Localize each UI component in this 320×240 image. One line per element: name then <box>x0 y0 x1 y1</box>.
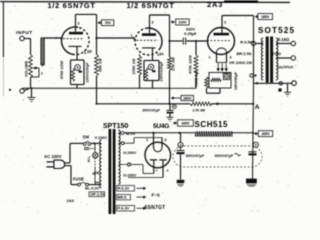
svg-text:G:290V: G:290V <box>123 174 137 178</box>
svg-text:5U4G: 5U4G <box>153 123 169 130</box>
svg-text:SCH515: SCH515 <box>195 120 229 129</box>
svg-text:SW: SW <box>83 135 90 140</box>
svg-text:1/2 6SN7GT: 1/2 6SN7GT <box>48 1 96 10</box>
svg-text:INPUT: INPUT <box>16 30 33 36</box>
svg-text:H.L: H.L <box>87 155 91 162</box>
svg-text:47K: 47K <box>92 170 100 176</box>
svg-text:45K 1W: 45K 1W <box>99 58 103 72</box>
svg-text:VR 100Ω 2W: VR 100Ω 2W <box>229 60 252 65</box>
svg-text:8: 8 <box>165 138 167 142</box>
svg-text:T/8Ω: T/8Ω <box>272 51 282 56</box>
svg-text:0.16Ω: 0.16Ω <box>278 37 290 42</box>
svg-text:285V: 285V <box>261 15 270 19</box>
svg-text:R:6.3V: R:6.3V <box>118 187 130 191</box>
svg-text:SPT150: SPT150 <box>103 123 128 130</box>
svg-text:2.7K 3W: 2.7K 3W <box>193 109 206 113</box>
svg-text:2A3: 2A3 <box>67 198 75 203</box>
svg-text:1: 1 <box>131 34 133 38</box>
svg-text:210V: 210V <box>178 20 187 24</box>
svg-text:V:100V: V:100V <box>95 136 108 140</box>
svg-text:4: 4 <box>230 56 232 60</box>
svg-text:265V: 265V <box>181 121 190 125</box>
svg-text:SOT525: SOT525 <box>258 26 295 35</box>
svg-text:2: 2 <box>41 72 43 76</box>
svg-text:NR: NR <box>95 181 99 185</box>
svg-text:2: 2 <box>146 138 148 142</box>
svg-text:BL:6.3V: BL:6.3V <box>85 186 100 190</box>
svg-text:R:3.5K: R:3.5K <box>240 39 253 44</box>
svg-text:100V/100µF: 100V/100µF <box>160 61 164 82</box>
svg-text:1/2 6SN7GT: 1/2 6SN7GT <box>127 1 175 10</box>
svg-text:300V/47µF: 300V/47µF <box>186 154 205 158</box>
svg-text:100V/100µF: 100V/100µF <box>86 62 90 83</box>
svg-text:2A3: 2A3 <box>207 0 223 9</box>
svg-text:150V/50µF: 150V/50µF <box>234 71 238 90</box>
svg-text:260V: 260V <box>183 96 192 100</box>
svg-text:0.25µF: 0.25µF <box>184 31 197 36</box>
svg-text:300V/47µF: 300V/47µF <box>215 154 234 158</box>
svg-text:76V: 76V <box>105 21 112 25</box>
svg-text:W:5V: W:5V <box>126 132 136 136</box>
svg-text:BR:0: BR:0 <box>118 196 127 200</box>
svg-text:OUTPUT: OUTPUT <box>278 65 295 70</box>
svg-text:780Ω 2W: 780Ω 2W <box>195 71 199 87</box>
svg-text:P:6.3V: P:6.3V <box>118 207 130 211</box>
svg-text:6SN7GT: 6SN7GT <box>145 205 166 211</box>
svg-text:F~5: F~5 <box>152 193 160 198</box>
svg-text:4700 1/2W: 4700 1/2W <box>60 60 64 79</box>
svg-text:G:290V: G:290V <box>123 151 137 155</box>
svg-text:1: 1 <box>209 56 211 60</box>
svg-text:27K 3W: 27K 3W <box>172 57 176 71</box>
svg-text:OP:1.5V: OP:1.5V <box>90 192 105 196</box>
svg-text:BR:2.5K: BR:2.5K <box>237 51 252 56</box>
